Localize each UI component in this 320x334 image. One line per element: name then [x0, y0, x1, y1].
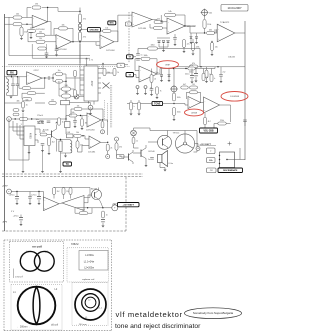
- label 8 Om: [169, 163, 174, 165]
- node y66 b: [217, 66, 218, 67]
- transistor Q5 bar: [94, 192, 96, 198]
- resistor R40 10k0: [148, 45, 158, 50]
- connector audio out: [106, 155, 110, 159]
- capacitor C16 1n: [136, 54, 140, 56]
- resistor R68 mid b: [74, 90, 77, 97]
- wire y119 to U11: [66, 116, 69, 120]
- wire res59 bot: [63, 195, 65, 200]
- resistor R58 2k2 top: [53, 188, 60, 195]
- ground RX tank: [9, 97, 12, 99]
- wire C20: [244, 122, 246, 126]
- node aux: [102, 119, 103, 120]
- op-amp U13b buffer: [62, 196, 84, 211]
- trimmer X circle a: [75, 95, 78, 98]
- wire D8 gnd: [190, 38, 192, 42]
- wire ground row b: [42, 151, 44, 171]
- wire R54 gnd: [138, 110, 140, 114]
- wire R24 left: [53, 73, 56, 75]
- svg-text:OPA?: OPA?: [165, 63, 171, 66]
- wire conn a: [137, 89, 139, 94]
- ground C3: [55, 55, 58, 57]
- op-amp U4 1/4TL084: [132, 12, 152, 30]
- wire to out jack: [90, 103, 92, 106]
- wire ground row a: [22, 113, 24, 171]
- wire Q4 base: [121, 156, 129, 158]
- wire conn b: [145, 89, 147, 94]
- capacitor C12: [47, 121, 51, 123]
- coil circle L2: [34, 251, 54, 271]
- ground R30: [47, 153, 50, 155]
- wire bus b: [13, 121, 24, 131]
- spec line 2: [84, 260, 95, 263]
- resistor R35 feedback U11: [74, 105, 82, 110]
- wire R44 top: [203, 69, 205, 74]
- svg-text:vlf metaldetektor: vlf metaldetektor: [116, 310, 183, 319]
- label BD139: [91, 189, 98, 191]
- wire R25 right: [63, 80, 67, 82]
- wire R55 gnd: [156, 94, 158, 97]
- svg-text:1M: 1M: [35, 4, 38, 6]
- spec diameter: [84, 284, 92, 287]
- wire branch up: [52, 74, 54, 78]
- svg-text:1/4TL084: 1/4TL084: [58, 49, 67, 51]
- wire D6 gnd: [161, 77, 163, 81]
- node x66 a: [65, 81, 66, 82]
- op-amp U12 1/2LM393: [88, 136, 101, 154]
- capacitor C1 47p: [29, 31, 33, 33]
- supply arrow R31: [102, 63, 104, 65]
- wire IC1 right pin5: [98, 87, 101, 89]
- label 170mm: [15, 276, 23, 279]
- svg-text:⊓⊓: ⊓⊓: [210, 169, 214, 172]
- pin big box 2: [219, 159, 220, 160]
- wire R15 top: [192, 39, 194, 43]
- label L1 dd: [13, 291, 16, 294]
- svg-text:+470u: +470u: [9, 195, 15, 197]
- box oo coil: [10, 242, 64, 283]
- wire pot down: [204, 16, 206, 19]
- trimmer X a: [103, 83, 110, 89]
- resistor R2 10k input: [13, 14, 22, 19]
- spec line 3: [84, 267, 94, 270]
- wire C25 gnd: [20, 220, 22, 224]
- resistor R10 10k U3 feedback: [103, 27, 112, 32]
- dd coil circle: [18, 287, 56, 325]
- wire C9 bot: [17, 86, 19, 96]
- supply arrow U6: [211, 41, 213, 43]
- wire IC1 left col: [80, 63, 84, 95]
- wire power rail top: [11, 192, 43, 201]
- wire IC2 pin r1: [35, 129, 40, 133]
- transistor Q3 emitter: [141, 156, 146, 162]
- capacitor C20 right rail: [243, 120, 247, 122]
- ground C2: [45, 57, 48, 59]
- wire IC1 right pin2: [98, 68, 115, 73]
- dotted vertical c: [109, 85, 111, 128]
- label 12V BATT net: [118, 203, 140, 207]
- pin inside box: [226, 159, 227, 160]
- wire L1 top: [69, 140, 71, 141]
- label 1n: [141, 55, 143, 57]
- label VOL-288: [200, 128, 218, 133]
- capacitor C3 under A2: [55, 49, 59, 51]
- svg-text:1k: 1k: [206, 77, 208, 79]
- op-amp U8 OP07: [139, 66, 157, 82]
- node y66 a: [200, 66, 201, 67]
- svg-text:DISCRIMINATE: DISCRIMINATE: [223, 169, 238, 172]
- label 40k: [17, 101, 20, 103]
- resistor R9 47k bias: [78, 32, 86, 41]
- wire U7 loop2: [31, 78, 45, 88]
- wire jack right: [11, 118, 20, 120]
- capacitor C11 10u: [36, 119, 44, 123]
- resistor R23 50k: [22, 98, 32, 102]
- wire A2 fb right: [68, 28, 74, 41]
- label C15: [67, 132, 71, 134]
- wire R20 gnd: [206, 78, 208, 81]
- svg-text:47k: 47k: [83, 18, 86, 20]
- wire y66.5 rail: [177, 66, 245, 68]
- wire R54 top: [138, 100, 140, 102]
- wire R40 left: [138, 48, 148, 50]
- wire Q5 emitter to rail: [101, 203, 103, 208]
- label 10k pot: [209, 13, 212, 15]
- wire C23 gnd: [29, 198, 31, 203]
- wire A2 fb left: [54, 28, 59, 35]
- capacitor C21 1u: [150, 158, 154, 160]
- svg-text:f=8khz: f=8khz: [71, 242, 79, 246]
- node U5 in: [161, 21, 162, 22]
- wire C25: [20, 215, 22, 218]
- title line 1 vlf metaldetektor: [116, 310, 183, 319]
- wire R38 bot: [78, 146, 90, 153]
- op-amp A2 1/4TL084: [56, 35, 72, 51]
- svg-text:10.04.2007: 10.04.2007: [228, 6, 242, 10]
- svg-text:2k2: 2k2: [157, 19, 160, 21]
- coplanar inner circle: [85, 297, 96, 308]
- box mixer: [61, 101, 70, 105]
- wire R13 right: [176, 15, 186, 26]
- label GROUND net: [88, 28, 101, 32]
- inner box bottom a: [9, 55, 90, 57]
- wire U7 to IC1: [66, 77, 84, 79]
- box note symbol: [207, 148, 216, 154]
- svg-text:tone and reject discriminator: tone and reject discriminator: [115, 323, 201, 330]
- node U8 out a: [173, 68, 174, 69]
- ground R20: [205, 81, 208, 83]
- resistor R42 47k: [188, 65, 196, 70]
- transistor Q2 emitter: [163, 144, 168, 149]
- node A2 out x80: [79, 41, 80, 42]
- svg-text:2k: 2k: [154, 78, 156, 80]
- resistor R39 22k: [106, 144, 112, 151]
- wire D7 stem: [168, 69, 170, 75]
- svg-text:220k: 220k: [196, 46, 200, 48]
- label BC546 Q3: [149, 151, 156, 153]
- transistor Q2 collector: [163, 136, 168, 141]
- resistor R49 1M fb: [190, 84, 198, 89]
- svg-text:1k: 1k: [136, 140, 138, 142]
- svg-text:+12V BATT: +12V BATT: [123, 203, 135, 206]
- wire A1 out: [48, 22, 51, 36]
- label L2 oo: [45, 251, 48, 254]
- node x80 d23: [79, 22, 80, 23]
- wire C22 gnd: [16, 199, 18, 203]
- node U11 in: [80, 115, 81, 116]
- wire A1 feedback to output: [42, 8, 80, 12]
- wire U7 out: [42, 77, 48, 79]
- wire R26 down: [22, 108, 24, 111]
- wire C3 stem: [56, 45, 58, 49]
- wire U8 out: [157, 69, 188, 75]
- wire R2 left to frame: [5, 17, 14, 19]
- box spec inner: [79, 251, 108, 271]
- node jack: [15, 118, 16, 119]
- wire U11 out: [101, 120, 108, 135]
- pin big box 1: [219, 155, 220, 156]
- ground C22: [15, 203, 18, 205]
- capacitor C7: [219, 75, 223, 77]
- resistor R18 12k: [211, 43, 218, 51]
- wire R6 left loop: [28, 33, 36, 42]
- svg-text:2k2: 2k2: [52, 141, 55, 143]
- wire to U6: [215, 32, 218, 34]
- ground tone: [172, 119, 175, 121]
- svg-text:100k: 100k: [177, 97, 181, 99]
- resistor R21 10k U7: [22, 87, 31, 90]
- capacitor C23 100n: [28, 197, 32, 199]
- label corner box: [117, 63, 125, 67]
- motor K100 circle: [175, 134, 194, 153]
- label 9V: [11, 211, 15, 213]
- spec coplanar: [82, 278, 95, 281]
- svg-text:BSC: BSC: [110, 23, 115, 25]
- wire C24 gnd: [38, 199, 40, 203]
- resistor R4 1k: [20, 27, 28, 36]
- wire C14 gnd: [74, 122, 76, 126]
- wire R69 left: [59, 84, 62, 90]
- ground D9: [195, 42, 198, 44]
- capacitor C8 tank: [11, 84, 15, 86]
- svg-text:100k: 100k: [177, 111, 181, 113]
- outer coil frame right: [111, 240, 113, 331]
- wire IC1 right pin6: [98, 92, 101, 94]
- ground C23: [28, 203, 31, 205]
- capacitor C30 tank box: [59, 141, 62, 152]
- oscillator box bottom border: [8, 64, 128, 66]
- transistor Q4 bar: [128, 154, 130, 161]
- wire R70 right: [71, 95, 75, 98]
- svg-text:7k: 7k: [160, 90, 162, 92]
- label TX net: [63, 162, 72, 166]
- wire U7 minus loop: [19, 77, 22, 88]
- resistor R60 12k top: [69, 188, 72, 195]
- wire C4 gnd: [174, 39, 176, 44]
- diode D4: [37, 122, 39, 124]
- ground D6: [160, 80, 163, 82]
- svg-text:1/2L084: 1/2L084: [88, 152, 96, 154]
- wire U11 fb right: [82, 109, 103, 120]
- svg-text:220u: 220u: [185, 74, 189, 76]
- wire R52 right: [226, 123, 230, 125]
- wire C19 gnd: [191, 78, 193, 81]
- separator double line B: [2, 176, 143, 178]
- wire U9 fb right: [198, 92, 201, 102]
- diode D8: [190, 37, 192, 39]
- annotation red ellipse LM348 right: [221, 92, 248, 102]
- label L2 coplanar: [88, 300, 91, 302]
- potentiometer P2 tone: [170, 85, 178, 93]
- label +12V BATT: [200, 143, 212, 146]
- svg-text:4k7: 4k7: [183, 84, 186, 86]
- resistor R8 47k bias: [78, 14, 86, 23]
- connector small a: [136, 86, 139, 89]
- transistor Q1 bar: [51, 131, 53, 138]
- ground C29: [101, 226, 104, 228]
- wire R51 top: [204, 113, 206, 117]
- svg-text:10: 10: [106, 214, 108, 216]
- op-amp U11 1/4TL084: [86, 113, 101, 132]
- coplanar outer circle: [75, 289, 106, 320]
- potentiometer P1 volume: [201, 9, 209, 17]
- relay box K1: [65, 122, 71, 128]
- transistor Q3 collector: [141, 145, 146, 151]
- label -9.7V: [2, 222, 8, 224]
- wire res58 bot: [53, 195, 55, 199]
- wire C7 gnd: [220, 76, 222, 81]
- wire output rail: [75, 207, 112, 209]
- wire bus d: [20, 125, 24, 139]
- wire C8 bot: [12, 86, 14, 96]
- ground R26: [21, 111, 24, 113]
- resistor R16 110k: [203, 20, 211, 29]
- marker rect coplanar: [93, 286, 102, 290]
- svg-text:47k: 47k: [190, 65, 193, 67]
- wire R27 to Q1: [47, 134, 52, 136]
- diode D1: [158, 41, 161, 43]
- node rail a: [16, 191, 17, 192]
- wire IC1 bottom pin1: [88, 101, 90, 104]
- resistor R44: [202, 73, 208, 81]
- ground R18: [210, 54, 213, 56]
- resistor R48 4k7: [181, 84, 189, 89]
- wire R61 right: [88, 208, 92, 213]
- resistor R29 10k: [49, 99, 57, 104]
- diode D6: [160, 75, 163, 77]
- transistor Q5 collector: [95, 188, 99, 194]
- diode D9: [195, 37, 197, 39]
- capacitor C24 470u: [30, 195, 41, 199]
- wire tone label: [127, 103, 152, 105]
- box JT FW: [207, 168, 217, 173]
- svg-text:10k: 10k: [72, 112, 75, 114]
- wire IC1 left pin2: [80, 74, 84, 76]
- capacitor C29 out: [101, 220, 105, 223]
- svg-text:L1.1=24w: L1.1=24w: [84, 260, 95, 263]
- resistor R70 10u d: [62, 92, 71, 98]
- wire driver rail drop: [167, 131, 169, 136]
- svg-text:1/4TL084: 1/4TL084: [106, 50, 115, 52]
- wire C2 stem: [46, 44, 48, 53]
- outer coil frame left: [3, 240, 5, 331]
- wire R12: [150, 24, 154, 28]
- wire R53 gnd: [130, 110, 132, 114]
- op-amp U7 OP07: [27, 70, 42, 84]
- wire C6 stem: [195, 67, 197, 74]
- wire C18 gnd: [151, 90, 153, 94]
- svg-text:47p: 47p: [24, 31, 27, 33]
- svg-text:10k: 10k: [16, 14, 19, 16]
- resistor R55 7k: [156, 87, 162, 95]
- transistor Q4 emitter: [129, 159, 134, 164]
- svg-text:▸: ▸: [107, 155, 108, 158]
- resistor R14: [183, 40, 190, 48]
- ground C1: [29, 37, 32, 39]
- wire IC1 top: [86, 60, 88, 67]
- svg-text:47k: 47k: [83, 36, 86, 38]
- svg-text:7k: 7k: [150, 88, 152, 90]
- outer coil frame bottom: [4, 330, 112, 332]
- resistor R64 lamp: [132, 137, 138, 144]
- ground row c: [59, 171, 62, 173]
- wire RX down: [11, 75, 13, 77]
- wire driver top rail: [134, 128, 198, 152]
- connector small b: [144, 86, 147, 89]
- wire R36 down: [117, 150, 120, 156]
- transistor Q2 bar: [162, 139, 164, 146]
- dimension bracket oo: [13, 269, 15, 279]
- power section right dashed: [125, 177, 127, 231]
- capacitor C18 22n: [150, 89, 154, 91]
- resistor R52 220k: [218, 120, 227, 125]
- wire R70 left: [59, 89, 62, 96]
- wire meter gnd: [90, 110, 92, 113]
- inner box bottom b: [32, 57, 90, 59]
- transistor Q5 BD139 circle: [92, 190, 102, 200]
- wire IC2 gnd: [28, 146, 30, 152]
- node after C10: [52, 77, 53, 78]
- connector out jack: [88, 105, 93, 110]
- wire U8 fb right: [150, 59, 157, 74]
- svg-text:47k: 47k: [119, 146, 122, 148]
- svg-text:50k: 50k: [25, 100, 28, 102]
- ground IC2: [27, 152, 30, 154]
- trimmer X circle: [74, 94, 79, 99]
- outer coil frame top: [4, 239, 112, 241]
- wire R61 left: [75, 208, 79, 213]
- wire U13a out: [59, 202, 62, 205]
- jack box big: [220, 152, 235, 168]
- wire U9 out: [201, 102, 204, 104]
- ground row b: [41, 171, 44, 173]
- label CA input: [125, 22, 131, 26]
- supply arrow IC1: [85, 58, 87, 60]
- wire R43 top: [151, 69, 153, 75]
- capacitor C10 coupling: [48, 76, 50, 80]
- node tone: [173, 103, 174, 104]
- wire C2 gnd: [46, 55, 48, 57]
- resistor R36 47k: [115, 143, 122, 151]
- resistor R32: [113, 68, 119, 76]
- wire U8 fb left: [135, 59, 141, 71]
- wire IC2 pin r2: [35, 134, 37, 136]
- wire C1: [30, 27, 32, 31]
- wire tank gnd: [65, 153, 67, 156]
- svg-text:12k: 12k: [66, 191, 69, 193]
- capacitor C19 220u: [185, 74, 194, 78]
- label 170mV: [37, 115, 44, 117]
- wire R18 gnd: [211, 51, 213, 55]
